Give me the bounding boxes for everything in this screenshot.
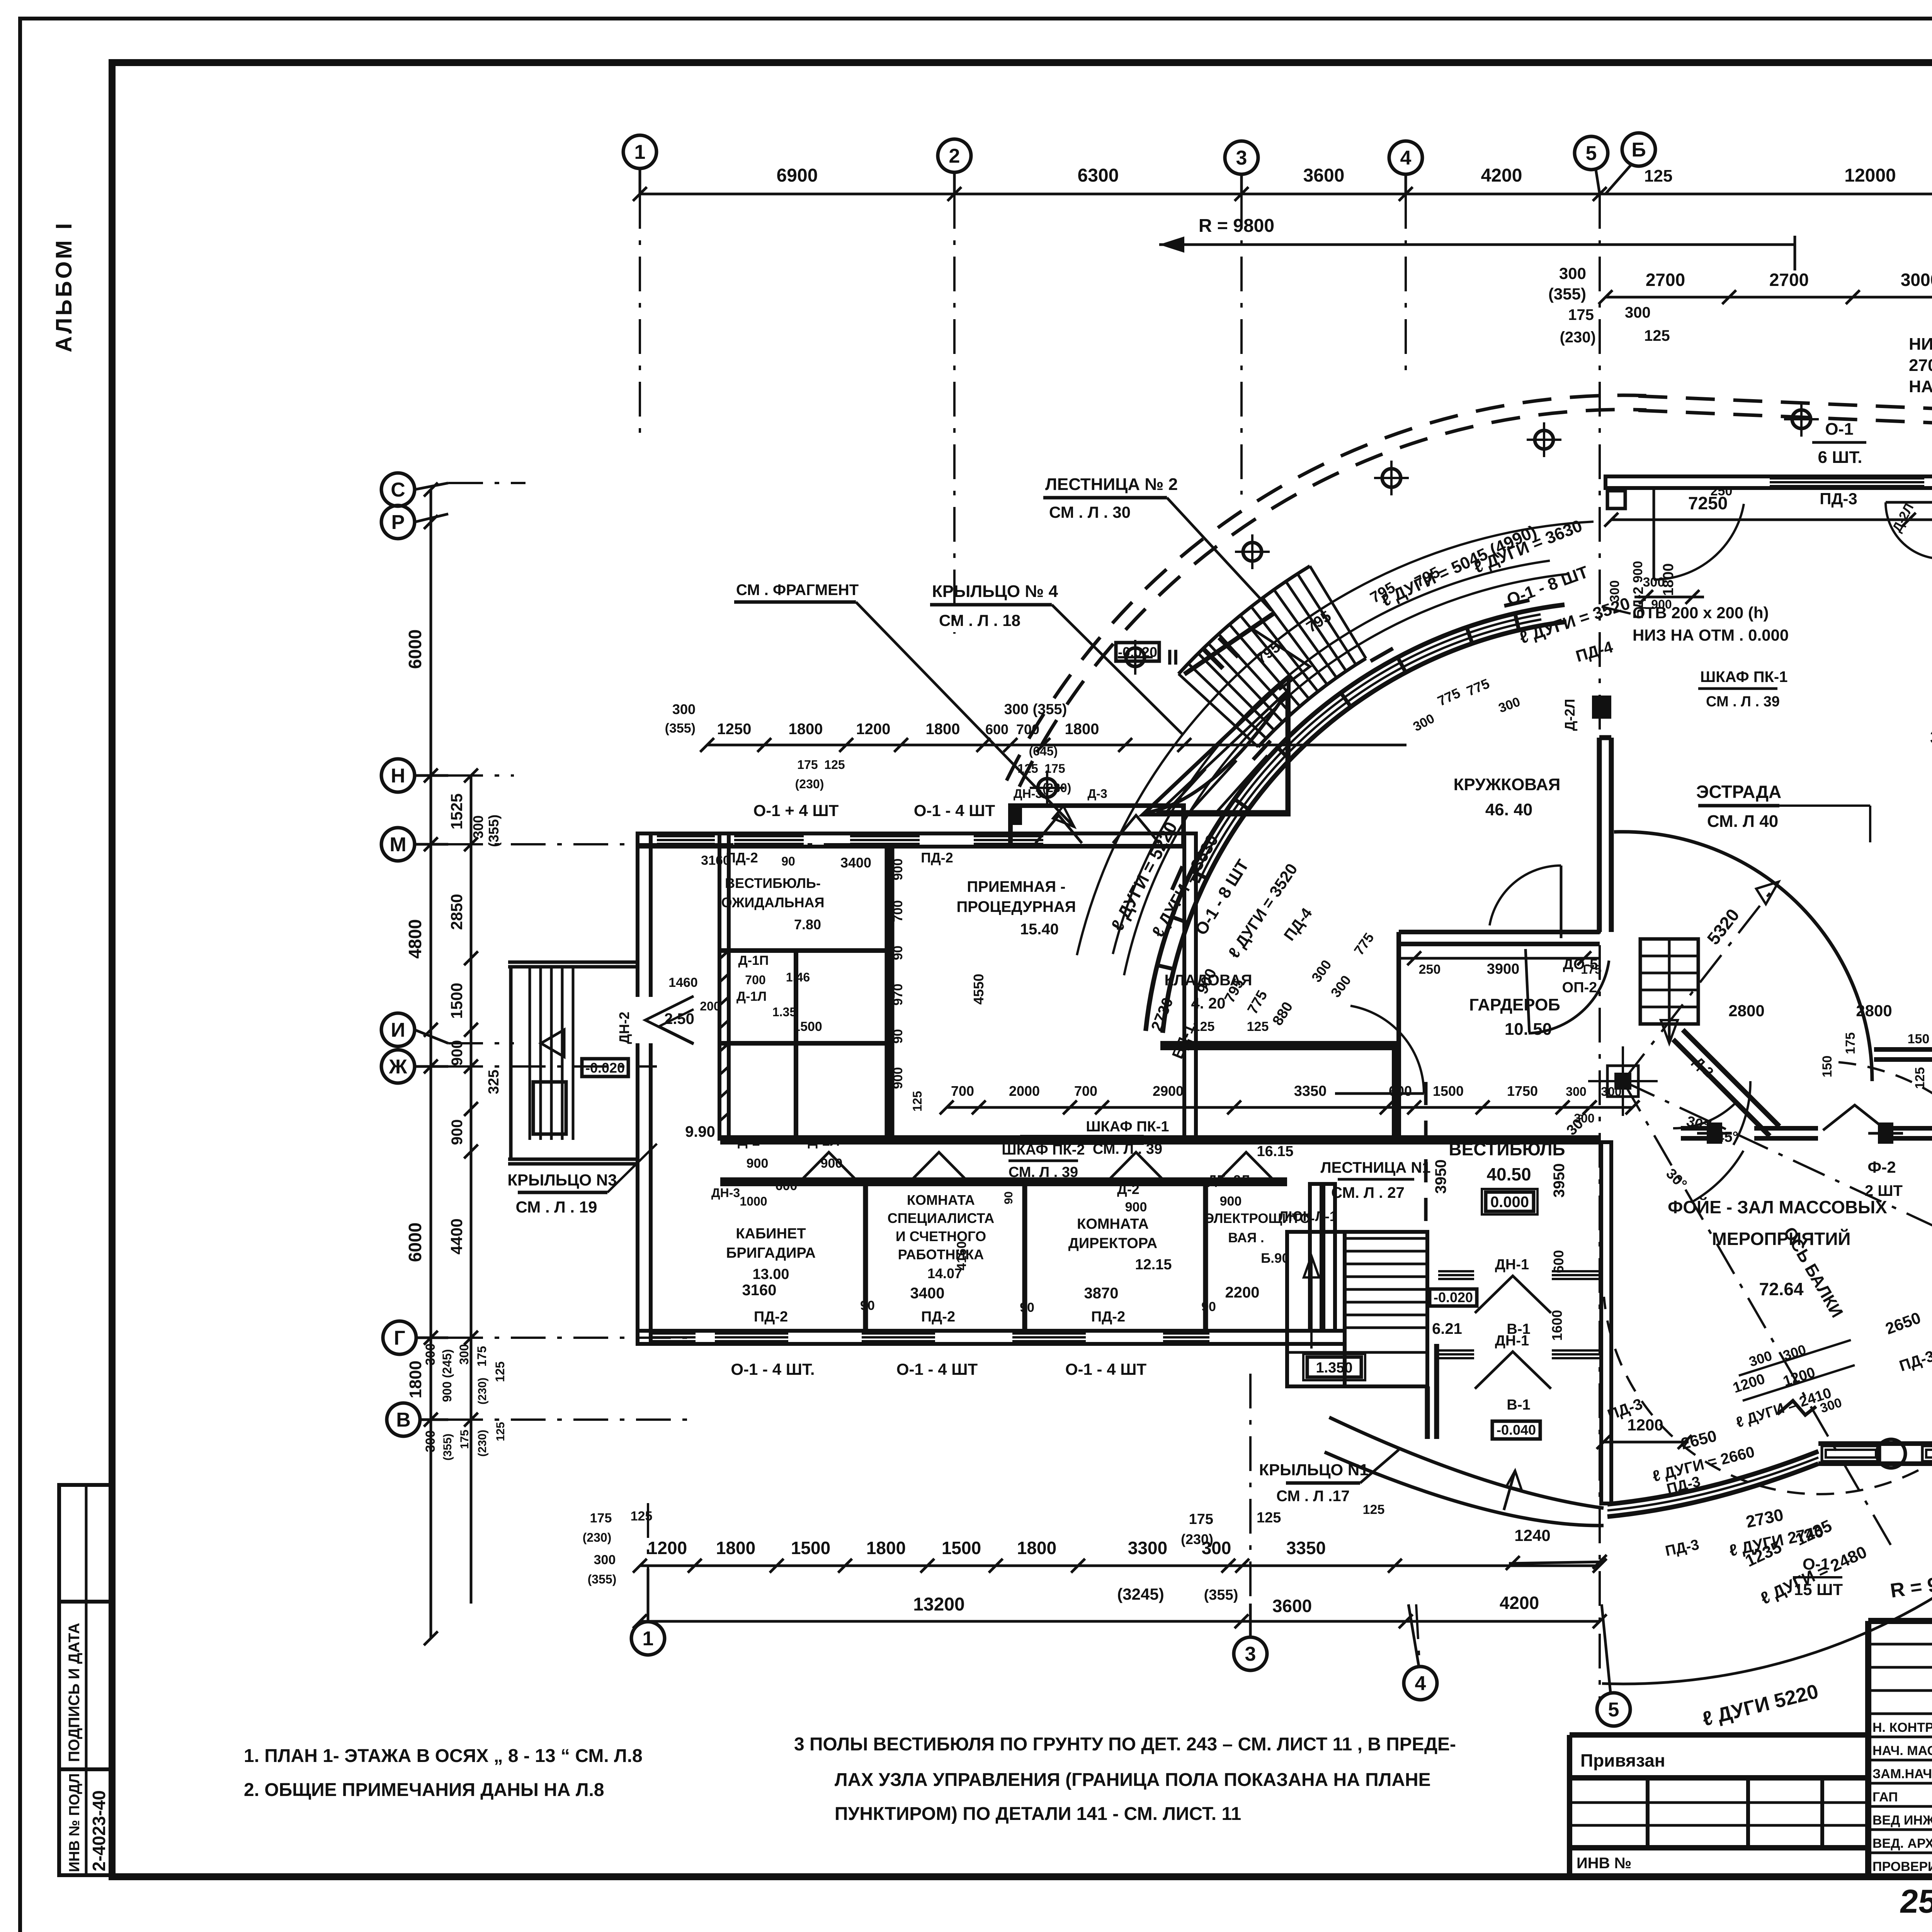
svg-text:ШКАФ ПК-1: ШКАФ ПК-1 [1086, 1119, 1169, 1135]
arc label dugi5220 l [1107, 818, 1181, 934]
svg-text:45°: 45° [1716, 1129, 1738, 1145]
svg-text:250: 250 [1711, 484, 1733, 498]
axis bubble 3 top [1225, 141, 1258, 194]
svg-text:6000: 6000 [405, 1223, 425, 1262]
garderob door swing [1490, 866, 1561, 938]
foyer south arc glazing [1607, 1458, 1818, 1510]
svg-text:300: 300 [1566, 1085, 1586, 1099]
hall window labels [1812, 418, 1932, 508]
svg-text:25226 - 01 10: 25226 - 01 10 [1898, 1883, 1932, 1920]
room label kruzhkovaya [1454, 775, 1561, 819]
svg-text:Привязан: Привязан [1580, 1750, 1665, 1770]
svg-text:О-1 - 4 ШТ: О-1 - 4 ШТ [896, 1360, 978, 1378]
shkaf pk1 hall label [1592, 668, 1787, 719]
svg-text:3400: 3400 [840, 855, 871, 871]
svg-text:(230): (230) [1560, 329, 1596, 346]
interior dims column b [910, 974, 1015, 1270]
svg-text:Д-3: Д-3 [1087, 787, 1107, 801]
center cross ticks [1588, 1046, 1658, 1116]
svg-text:ЗАМ.НАЧ.М: ЗАМ.НАЧ.М [1872, 1767, 1932, 1781]
axis line M [448, 843, 889, 845]
axis line 4 [1405, 194, 1407, 379]
axis line 1 [639, 194, 641, 444]
svg-text:ПРИЕМНАЯ -: ПРИЕМНАЯ - [967, 878, 1065, 895]
svg-text:12000: 12000 [1844, 165, 1896, 186]
top dimension line [633, 187, 1932, 201]
svg-text:3950: 3950 [1432, 1160, 1449, 1194]
svg-text:175: 175 [1568, 306, 1594, 323]
svg-text:300 (355): 300 (355) [1004, 701, 1067, 718]
pd3 label south [1596, 1391, 1645, 1423]
svg-text:1800: 1800 [866, 1538, 906, 1558]
svg-text:4200: 4200 [1481, 165, 1522, 186]
interior door labels [664, 953, 1250, 1226]
svg-text:ВЕД ИНЖ.: ВЕД ИНЖ. [1872, 1813, 1932, 1828]
corridor door chevrons [802, 1152, 1273, 1180]
corridor dim chain [940, 1083, 1639, 1114]
left lower dim cluster [423, 1344, 507, 1461]
title block inv no text [1577, 1855, 1631, 1872]
arc label o18sht r [1504, 563, 1591, 609]
svg-text:2-4023-40: 2-4023-40 [89, 1790, 109, 1871]
minus 0040 box [1492, 1421, 1540, 1439]
hall entrance door bd2 [1630, 488, 1744, 619]
hall top wall window pd3 [1770, 478, 1924, 486]
axis bubble B top [1605, 133, 1655, 194]
album label [51, 221, 77, 352]
bottom dim chain row2 [633, 1593, 1607, 1628]
arc label 300 group [1308, 930, 1395, 1000]
estrada radius arrow [1623, 882, 1779, 1081]
svg-text:600: 600 [1551, 1250, 1566, 1273]
foyer south windows and columns [1822, 1439, 1932, 1468]
svg-text:4800: 4800 [405, 919, 425, 959]
room label komnata spetsialista [888, 1192, 994, 1281]
svg-text:300: 300 [423, 1344, 438, 1366]
hall top wall [1605, 476, 1932, 488]
dim 3950 left [1432, 1160, 1449, 1194]
axis bubble 3 bottom [1234, 1604, 1267, 1670]
svg-text:ПРОЦЕДУРНАЯ: ПРОЦЕДУРНАЯ [957, 898, 1076, 915]
svg-text:15.40: 15.40 [1020, 921, 1059, 938]
svg-text:3 ПОЛЫ ВЕСТИБЮЛЯ ПО ГРУНТУ П: 3 ПОЛЫ ВЕСТИБЮЛЯ ПО ГРУНТУ ПО ДЕТ. 243 –… [794, 1734, 1456, 1755]
bottom radius line [1600, 1604, 1932, 1605]
staircase 2 hatched [1179, 566, 1366, 747]
left dim chain outer [405, 483, 438, 1645]
svg-text:(355): (355) [441, 1434, 454, 1461]
corridor north wall [720, 1138, 1600, 1142]
svg-text:175: 175 [475, 1346, 489, 1366]
svg-text:ПУНКТИРОМ) ПО ДЕТАЛИ 141 -: ПУНКТИРОМ) ПО ДЕТАЛИ 141 - СМ. ЛИСТ. 11 [835, 1804, 1241, 1824]
svg-text:5: 5 [1586, 142, 1597, 165]
south arc jog [1777, 1401, 1816, 1415]
svg-text:3: 3 [1245, 1643, 1256, 1665]
svg-text:13200: 13200 [913, 1594, 964, 1615]
svg-text:3160: 3160 [742, 1282, 777, 1299]
svg-text:300: 300 [594, 1553, 616, 1567]
left dim chain inner [447, 769, 502, 1604]
axis bubble 1 bottom [631, 1569, 665, 1655]
colonnade columns [1030, 402, 1932, 805]
svg-text:ОП-2: ОП-2 [1562, 980, 1597, 996]
svg-text:Б.90: Б.90 [1261, 1251, 1289, 1266]
svg-text:1500: 1500 [791, 1538, 830, 1558]
svg-text:600: 600 [985, 721, 1009, 737]
svg-text:В-1: В-1 [1507, 1397, 1530, 1413]
stamp text inv podl [66, 1773, 83, 1872]
svg-text:2850: 2850 [447, 894, 466, 930]
svg-text:БД-2: БД-2 [1630, 587, 1646, 619]
svg-text:1800: 1800 [1017, 1538, 1056, 1558]
canopy dashed arc inner [1019, 410, 1646, 787]
svg-text:250: 250 [1419, 962, 1441, 977]
svg-text:СМ . Л . 39: СМ . Л . 39 [1706, 694, 1780, 710]
stamp text 2-4023-40 [89, 1790, 109, 1871]
svg-text:СМ . Л . 19: СМ . Л . 19 [516, 1198, 597, 1216]
svg-text:900: 900 [747, 1156, 769, 1171]
sm fragment arrowhead [1053, 806, 1074, 827]
svg-text:72.64: 72.64 [1759, 1279, 1804, 1299]
belt dims [1681, 1002, 1932, 1089]
axis line H [448, 774, 514, 777]
svg-text:МЕРОПРИЯТИЙ: МЕРОПРИЯТИЙ [1712, 1229, 1851, 1249]
svg-text:ПД-2: ПД-2 [754, 1309, 788, 1325]
arc label pd4 l [1281, 905, 1316, 944]
arc dim 2730 chain2 [1664, 1537, 1701, 1560]
vestibule east wall [1601, 1142, 1611, 1503]
room label komnata direktora [1068, 1216, 1172, 1273]
axis stem 4 bottom [1416, 1604, 1420, 1667]
arc wall outer [1146, 605, 1565, 1031]
minus 0020 box south [1430, 1289, 1477, 1306]
garderob west wall [1160, 1043, 1399, 1138]
axis bubble 5 top [1575, 136, 1608, 194]
svg-text:900: 900 [1220, 1194, 1242, 1209]
svg-text:1000: 1000 [740, 1194, 767, 1208]
svg-text:125: 125 [1247, 1019, 1269, 1034]
svg-text:6000: 6000 [405, 629, 425, 669]
svg-text:В: В [396, 1409, 411, 1431]
svg-text:Ф-2: Ф-2 [1867, 1158, 1896, 1176]
office partition 1 [863, 1184, 868, 1331]
north entrance bump [1010, 787, 1184, 846]
svg-text:Р: Р [391, 511, 405, 534]
svg-text:4: 4 [1415, 1672, 1426, 1695]
foyer south straight wall [1818, 1444, 1932, 1464]
svg-text:СМ . Л . 30: СМ . Л . 30 [1049, 503, 1131, 521]
left wing interior west wall [719, 833, 729, 1139]
arc dim line r1360 [1113, 561, 1550, 954]
room label elektroshchitovaya [1204, 1211, 1315, 1266]
kladovaya 420 label [1165, 972, 1269, 1034]
svg-text:5: 5 [1608, 1699, 1619, 1721]
svg-text:700: 700 [891, 900, 905, 922]
svg-text:Д-2Л: Д-2Л [808, 1133, 840, 1149]
sm fragment label [734, 582, 1074, 827]
svg-text:200: 200 [700, 999, 720, 1013]
hall label [1930, 726, 1932, 785]
svg-text:90: 90 [781, 854, 795, 868]
svg-text:900: 900 [891, 1067, 905, 1089]
svg-text:ДЕ=2Л: ДЕ=2Л [1207, 1173, 1250, 1187]
arc label dugi3520 r [1517, 594, 1632, 648]
floor border dashed vestibule [1424, 1082, 1428, 1231]
door DN-2 chevron [616, 996, 694, 1044]
svg-text:РАБОТНИКА: РАБОТНИКА [898, 1247, 984, 1262]
svg-text:1800: 1800 [926, 721, 960, 738]
north wall window 1 [734, 836, 804, 844]
interior dims column a [891, 859, 905, 1089]
svg-text:3: 3 [1236, 147, 1247, 169]
svg-text:ШКАФ ПК-1: ШКАФ ПК-1 [1700, 668, 1787, 685]
window labels north [701, 801, 995, 871]
entrance tambour walls [1427, 1271, 1600, 1439]
svg-text:270 х 250 х 375 (h) НИЗ: 270 х 250 х 375 (h) НИЗ [1909, 356, 1932, 375]
svg-text:1: 1 [643, 1628, 654, 1650]
svg-text:1.35: 1.35 [772, 1005, 796, 1019]
axis line V [448, 1418, 696, 1421]
do5 op2 label [1562, 956, 1598, 996]
svg-text:(230): (230) [476, 1430, 489, 1457]
entrance doors DN-1 V-1 [1475, 1257, 1551, 1413]
svg-text:1800: 1800 [716, 1538, 755, 1558]
office partition 3 [1203, 1184, 1208, 1331]
minus 0020 box west [582, 1059, 628, 1077]
svg-text:900: 900 [449, 1040, 466, 1066]
axis bubble 1 top [623, 135, 656, 194]
left wing north wall [638, 833, 1184, 847]
nisha polivochnogo krana note [1909, 335, 1932, 476]
svg-text:3350: 3350 [1286, 1538, 1326, 1558]
svg-text:2700: 2700 [1646, 270, 1685, 290]
svg-text:1200: 1200 [1627, 1416, 1663, 1434]
svg-text:Н. КОНТР: Н. КОНТР [1872, 1720, 1932, 1735]
vestibule west wall [1323, 1184, 1335, 1331]
axis bubble C left [381, 473, 448, 506]
svg-text:2.50: 2.50 [664, 1010, 694, 1027]
svg-text:900: 900 [891, 859, 905, 881]
corridor window sills [1020, 1136, 1144, 1144]
axis bubble 5 bottom [1597, 1604, 1630, 1726]
left wing west wall [638, 833, 651, 1344]
svg-text:И: И [391, 1019, 405, 1041]
foye label [1668, 1197, 1887, 1299]
section mark II top [1167, 612, 1275, 674]
svg-text:ИНВ №: ИНВ № [1577, 1855, 1631, 1872]
stamp text podpis data [66, 1623, 83, 1762]
svg-text:ГАП: ГАП [1872, 1790, 1898, 1804]
dim 3950 right [1549, 1163, 1568, 1378]
svg-text:-0.040: -0.040 [1497, 1422, 1536, 1438]
svg-text:90: 90 [1020, 1300, 1034, 1315]
svg-text:НИША ПОЛИВОЧНОГО КРАНА: НИША ПОЛИВОЧНОГО КРАНА [1909, 335, 1932, 354]
handwritten archive number [1898, 1883, 1932, 1920]
svg-text:700: 700 [1074, 1083, 1097, 1099]
otv200 label [1602, 604, 1789, 644]
svg-text:90: 90 [1002, 1191, 1015, 1204]
svg-text:6300: 6300 [1078, 165, 1119, 186]
svg-text:1.350: 1.350 [1316, 1360, 1352, 1376]
svg-text:300: 300 [1625, 304, 1651, 321]
svg-text:КОМНАТА: КОМНАТА [1077, 1216, 1149, 1232]
svg-text:300: 300 [672, 701, 696, 717]
left wing top dim chain [665, 701, 1406, 795]
estrada ladder [1640, 939, 1698, 1043]
svg-text:ПД-2: ПД-2 [726, 850, 758, 866]
svg-text:300: 300 [1607, 580, 1622, 602]
hall inner top dims [1604, 484, 1932, 527]
door swing vestibule [1335, 1006, 1424, 1094]
svg-text:ПД-2: ПД-2 [1091, 1309, 1125, 1325]
title block main grid [1868, 1621, 1932, 1877]
svg-text:ДН-2: ДН-2 [616, 1012, 632, 1044]
svg-text:1800: 1800 [1660, 563, 1677, 596]
svg-text:9.90: 9.90 [685, 1123, 715, 1140]
svg-text:ОЖИДАЛЬНАЯ: ОЖИДАЛЬНАЯ [721, 895, 824, 910]
svg-text:1: 1 [634, 141, 646, 163]
axis line C [448, 482, 526, 484]
svg-text:3350: 3350 [1294, 1083, 1327, 1099]
svg-text:3870: 3870 [1084, 1285, 1119, 1302]
svg-text:Ж: Ж [389, 1056, 408, 1078]
garderob door swing2 [1526, 949, 1609, 1033]
svg-text:(3245): (3245) [1117, 1585, 1164, 1603]
garderob dim row [1399, 951, 1602, 989]
arc wall glazing b [1193, 614, 1541, 881]
svg-text:1800: 1800 [1065, 721, 1099, 738]
svg-text:СМ. Л 40: СМ. Л 40 [1707, 812, 1778, 831]
north wall window 0 [657, 836, 715, 844]
do5 label belt [1865, 1108, 1932, 1199]
shkaf pk1 label corridor [1086, 1119, 1169, 1157]
svg-text:4400: 4400 [447, 1218, 466, 1254]
l dugi 5220 bottom label [1700, 1680, 1821, 1731]
partition vestibule east [887, 846, 892, 1138]
svg-text:3600: 3600 [1303, 165, 1345, 186]
title block privyazan text [1580, 1750, 1665, 1770]
svg-text:ВАЯ .: ВАЯ . [1228, 1230, 1264, 1245]
svg-text:16.15: 16.15 [1257, 1143, 1293, 1160]
svg-text:46. 40: 46. 40 [1485, 800, 1532, 819]
svg-text:125: 125 [493, 1361, 507, 1382]
svg-text:4. 20: 4. 20 [1191, 995, 1226, 1012]
axis bubble Zh left [381, 1050, 448, 1083]
svg-text:6 ШТ.: 6 ШТ. [1818, 448, 1862, 467]
svg-text:600: 600 [776, 1179, 798, 1193]
porch 4 hatch [1167, 755, 1267, 811]
arc label bd1 [1148, 995, 1198, 1061]
svg-text:300: 300 [423, 1430, 438, 1452]
svg-text:СМ . ФРАГМЕНТ: СМ . ФРАГМЕНТ [736, 582, 859, 599]
svg-text:175: 175 [590, 1511, 612, 1526]
sklad door [1886, 501, 1932, 558]
axis line I-left [448, 1042, 514, 1044]
arc label pd4 r [1574, 638, 1615, 665]
svg-text:О-1: О-1 [1825, 420, 1853, 439]
svg-text:(355): (355) [486, 815, 502, 847]
foyer south arc wall [1607, 1451, 1818, 1517]
svg-text:-0.020: -0.020 [1118, 644, 1157, 660]
axis bubble 4 top [1389, 141, 1422, 194]
svg-text:125: 125 [824, 758, 845, 772]
top dim 12000 [1844, 165, 1896, 186]
arc dim 2650-2660 [1651, 1427, 1756, 1498]
svg-text:СМ. Л . 27: СМ. Л . 27 [1331, 1184, 1405, 1201]
arc wall glazing a [1198, 619, 1541, 883]
svg-text:ПОДПИСЬ И ДАТА: ПОДПИСЬ И ДАТА [66, 1623, 83, 1762]
lyuk label [1279, 1208, 1337, 1224]
svg-text:СМ. Л . 39: СМ. Л . 39 [1009, 1164, 1078, 1180]
d2 label 1615 [1257, 1143, 1293, 1160]
note 2 [244, 1780, 604, 1800]
box 1350 [1303, 1354, 1365, 1380]
axis line 5 [1599, 194, 1601, 1700]
svg-text:4: 4 [1400, 147, 1412, 169]
axis bubble V left [387, 1403, 448, 1436]
svg-text:900 (245): 900 (245) [440, 1349, 454, 1402]
bottom left cluster small dims [583, 1509, 653, 1586]
svg-text:(230): (230) [1181, 1531, 1213, 1547]
svg-text:13.00: 13.00 [752, 1266, 789, 1282]
top dim 6900 [777, 165, 818, 186]
axis bubble M left [381, 828, 448, 861]
svg-text:НАЧ. МАСТ: НАЧ. МАСТ [1872, 1743, 1932, 1758]
svg-text:ДН-3: ДН-3 [1014, 787, 1042, 801]
top dim 4200 [1481, 165, 1522, 186]
top dim 125 a [1644, 167, 1672, 185]
axis stem 3 bottom [1249, 1374, 1252, 1637]
svg-text:С: С [391, 479, 405, 501]
svg-text:ВЕД. АРХ: ВЕД. АРХ [1872, 1836, 1932, 1851]
svg-text:300: 300 [470, 815, 486, 838]
south wall window 4 [1163, 1333, 1209, 1341]
svg-text:О-1 + 4 ШТ: О-1 + 4 ШТ [753, 801, 839, 820]
arc label 775 top [1411, 675, 1538, 734]
axis line 3 [1240, 194, 1243, 495]
staircase 1 [1287, 1232, 1427, 1386]
shkaf pk2 label [1002, 1142, 1085, 1180]
canopy dashed arc outer [1007, 395, 1647, 781]
svg-text:(355): (355) [665, 721, 696, 736]
svg-text:КРЫЛЬЦО N1: КРЫЛЬЦО N1 [1259, 1461, 1368, 1479]
svg-text:СМ . Л .17: СМ . Л .17 [1276, 1488, 1350, 1505]
svg-text:БРИГАДИРА: БРИГАДИРА [726, 1245, 816, 1261]
axis bubble 4 bottom [1404, 1604, 1437, 1700]
arc wall inner [1163, 622, 1566, 1033]
south wall window 1 [715, 1333, 788, 1341]
porch 1 label [1259, 1450, 1399, 1505]
lestnitsa 2 label [1043, 475, 1271, 611]
R9800 bottom label [1889, 1569, 1932, 1602]
svg-text:125: 125 [1363, 1502, 1385, 1517]
svg-text:125: 125 [910, 1091, 924, 1111]
svg-text:3900: 3900 [1487, 961, 1520, 977]
arc label 795 group r [1253, 563, 1442, 667]
svg-text:ПД-2: ПД-2 [921, 850, 953, 866]
svg-text:12.15: 12.15 [1135, 1257, 1172, 1273]
svg-text:3950: 3950 [1551, 1163, 1568, 1198]
svg-text:970: 970 [891, 984, 905, 1006]
svg-text:175: 175 [458, 1430, 471, 1449]
svg-text:СПЕЦИАЛИСТА: СПЕЦИАЛИСТА [888, 1210, 994, 1226]
svg-text:150: 150 [1908, 1032, 1930, 1046]
svg-text:2700: 2700 [1769, 270, 1809, 290]
arc wall pilasters [1172, 600, 1531, 894]
svg-text:2 ШТ: 2 ШТ [1865, 1182, 1903, 1199]
svg-text:(645): (645) [1029, 744, 1058, 758]
svg-text:2900: 2900 [1153, 1083, 1184, 1099]
svg-text:3300: 3300 [1128, 1538, 1167, 1558]
